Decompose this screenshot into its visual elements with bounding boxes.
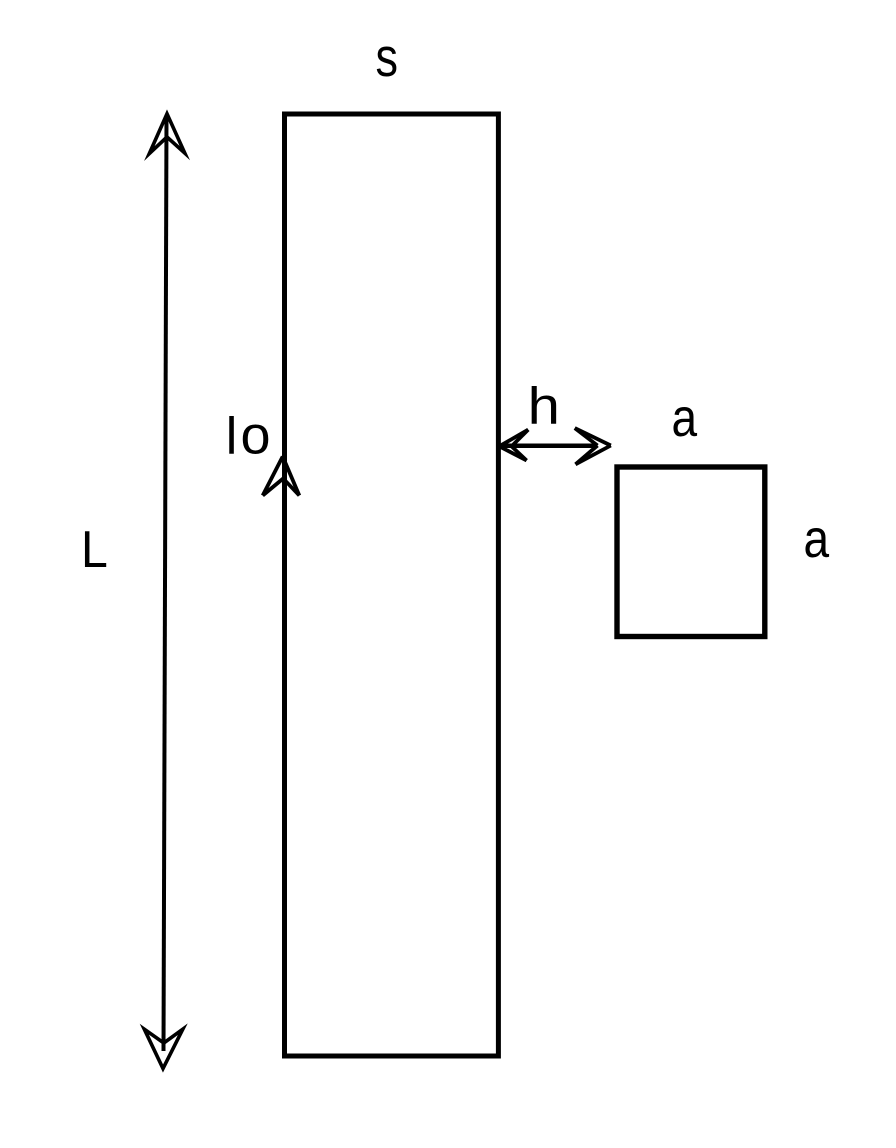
svg-text:s: s <box>376 26 399 88</box>
svg-text:a: a <box>672 388 698 448</box>
svg-text:h: h <box>528 378 560 436</box>
svg-text:o: o <box>241 405 271 465</box>
svg-text:a: a <box>804 509 830 569</box>
svg-text:l: l <box>226 407 238 465</box>
svg-text:L: L <box>81 521 108 579</box>
